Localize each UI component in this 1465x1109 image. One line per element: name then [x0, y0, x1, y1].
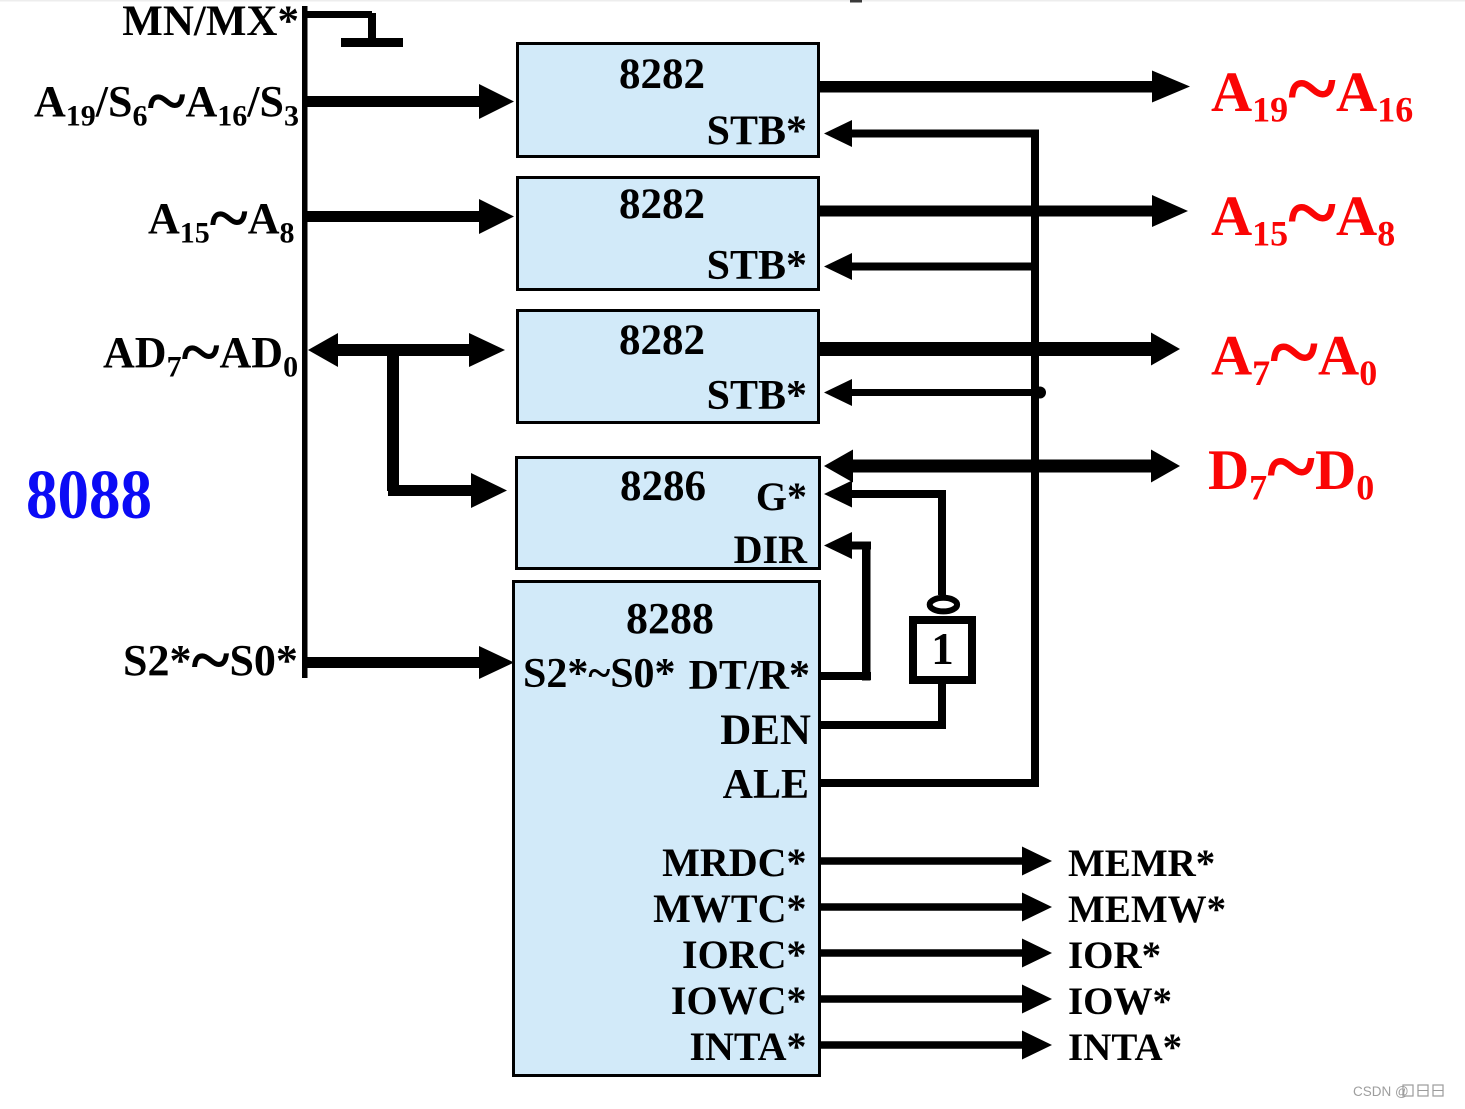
svg-text:DEN: DEN: [720, 707, 811, 754]
svg-text:1: 1: [931, 624, 954, 674]
wire DEN to inverter: [820, 684, 946, 729]
svg-text:MRDC*: MRDC*: [662, 840, 806, 885]
latch U2 8282: [518, 178, 819, 290]
svg-text:IOW*: IOW*: [1068, 980, 1172, 1023]
watermark: [1353, 1084, 1443, 1099]
svg-text:8288: 8288: [626, 594, 714, 643]
svg-text:8286: 8286: [620, 463, 706, 510]
wire ALE to STB* latch1: [824, 120, 1039, 147]
wire MN/MX* to pull-down: [305, 11, 376, 45]
svg-text:IORC*: IORC*: [682, 932, 806, 977]
signal arrow IORC* to IOR*: [821, 939, 1052, 968]
svg-text:IOWC*: IOWC*: [671, 978, 807, 1023]
svg-text:DIR: DIR: [734, 527, 808, 572]
wire inverter out to G*: [824, 481, 946, 596]
signal arrow INTA* to INTA*: [821, 1031, 1052, 1060]
svg-text:S2*~S0*: S2*~S0*: [523, 651, 676, 697]
svg-text:MEMW*: MEMW*: [1068, 888, 1226, 931]
latch U3 8282: [518, 311, 819, 423]
bus arrow latch3 out to A7~A0: [820, 333, 1180, 366]
bus arrow S2*~S0* to bus controller: [307, 646, 514, 679]
svg-text:STB*: STB*: [707, 109, 807, 155]
bus arrow A15~A8 to latch 2: [307, 199, 514, 234]
svg-text:8282: 8282: [619, 317, 705, 364]
bus arrow AD7~AD0 double-headed to latch 3: [308, 333, 505, 367]
wire ALE to STB* latch3: [824, 379, 1046, 406]
wire AD bus tee down to transceiver: [387, 350, 507, 508]
svg-text:CSDN @: CSDN @: [1353, 1084, 1409, 1099]
bus arrow latch2 out to A15~A8: [820, 195, 1188, 227]
svg-text:MN/MX*: MN/MX*: [122, 0, 299, 45]
svg-text:IOR*: IOR*: [1068, 934, 1161, 977]
bus controller U5 8288: [514, 582, 820, 1076]
svg-text:8088: 8088: [26, 457, 152, 534]
transceiver U4 8286: [517, 458, 820, 573]
signal arrow MWTC* to MEMW*: [821, 893, 1052, 922]
wire ALE feedback vertical: [1031, 130, 1039, 788]
bus arrow A19/S6~A16/S3 to latch 1: [307, 84, 514, 119]
latch U1 8282: [518, 44, 819, 157]
inverter box 1: [913, 620, 972, 680]
svg-text:INTA*: INTA*: [689, 1024, 806, 1069]
svg-text:G*: G*: [756, 474, 807, 519]
svg-text:8282: 8282: [619, 181, 705, 228]
inverter bubble: [930, 598, 957, 612]
svg-text:STB*: STB*: [707, 373, 807, 419]
signal arrow MRDC* to MEMR*: [821, 847, 1052, 876]
top edge artifact line: [0, 0, 1465, 3]
svg-text:8282: 8282: [619, 51, 705, 98]
wire ALE from 8288: [820, 779, 1039, 787]
pull-down ground bar: [341, 38, 403, 47]
svg-text:MWTC*: MWTC*: [653, 886, 806, 931]
bus arrow latch1 out to A19~A16: [820, 71, 1190, 103]
signal arrow IOWC* to IOW*: [821, 985, 1052, 1014]
svg-text:ALE: ALE: [723, 762, 809, 808]
svg-text:INTA*: INTA*: [1068, 1026, 1182, 1069]
CPU bus line (8088 right edge): [302, 6, 308, 678]
svg-text:STB*: STB*: [707, 243, 807, 289]
bus arrow transceiver to D7~D0 double-headed: [824, 450, 1180, 483]
svg-text:DT/R*: DT/R*: [689, 653, 810, 699]
svg-text:MEMR*: MEMR*: [1068, 842, 1215, 885]
wire DT/R* to DIR: [820, 532, 871, 681]
wire ALE to STB* latch2: [824, 253, 1031, 280]
